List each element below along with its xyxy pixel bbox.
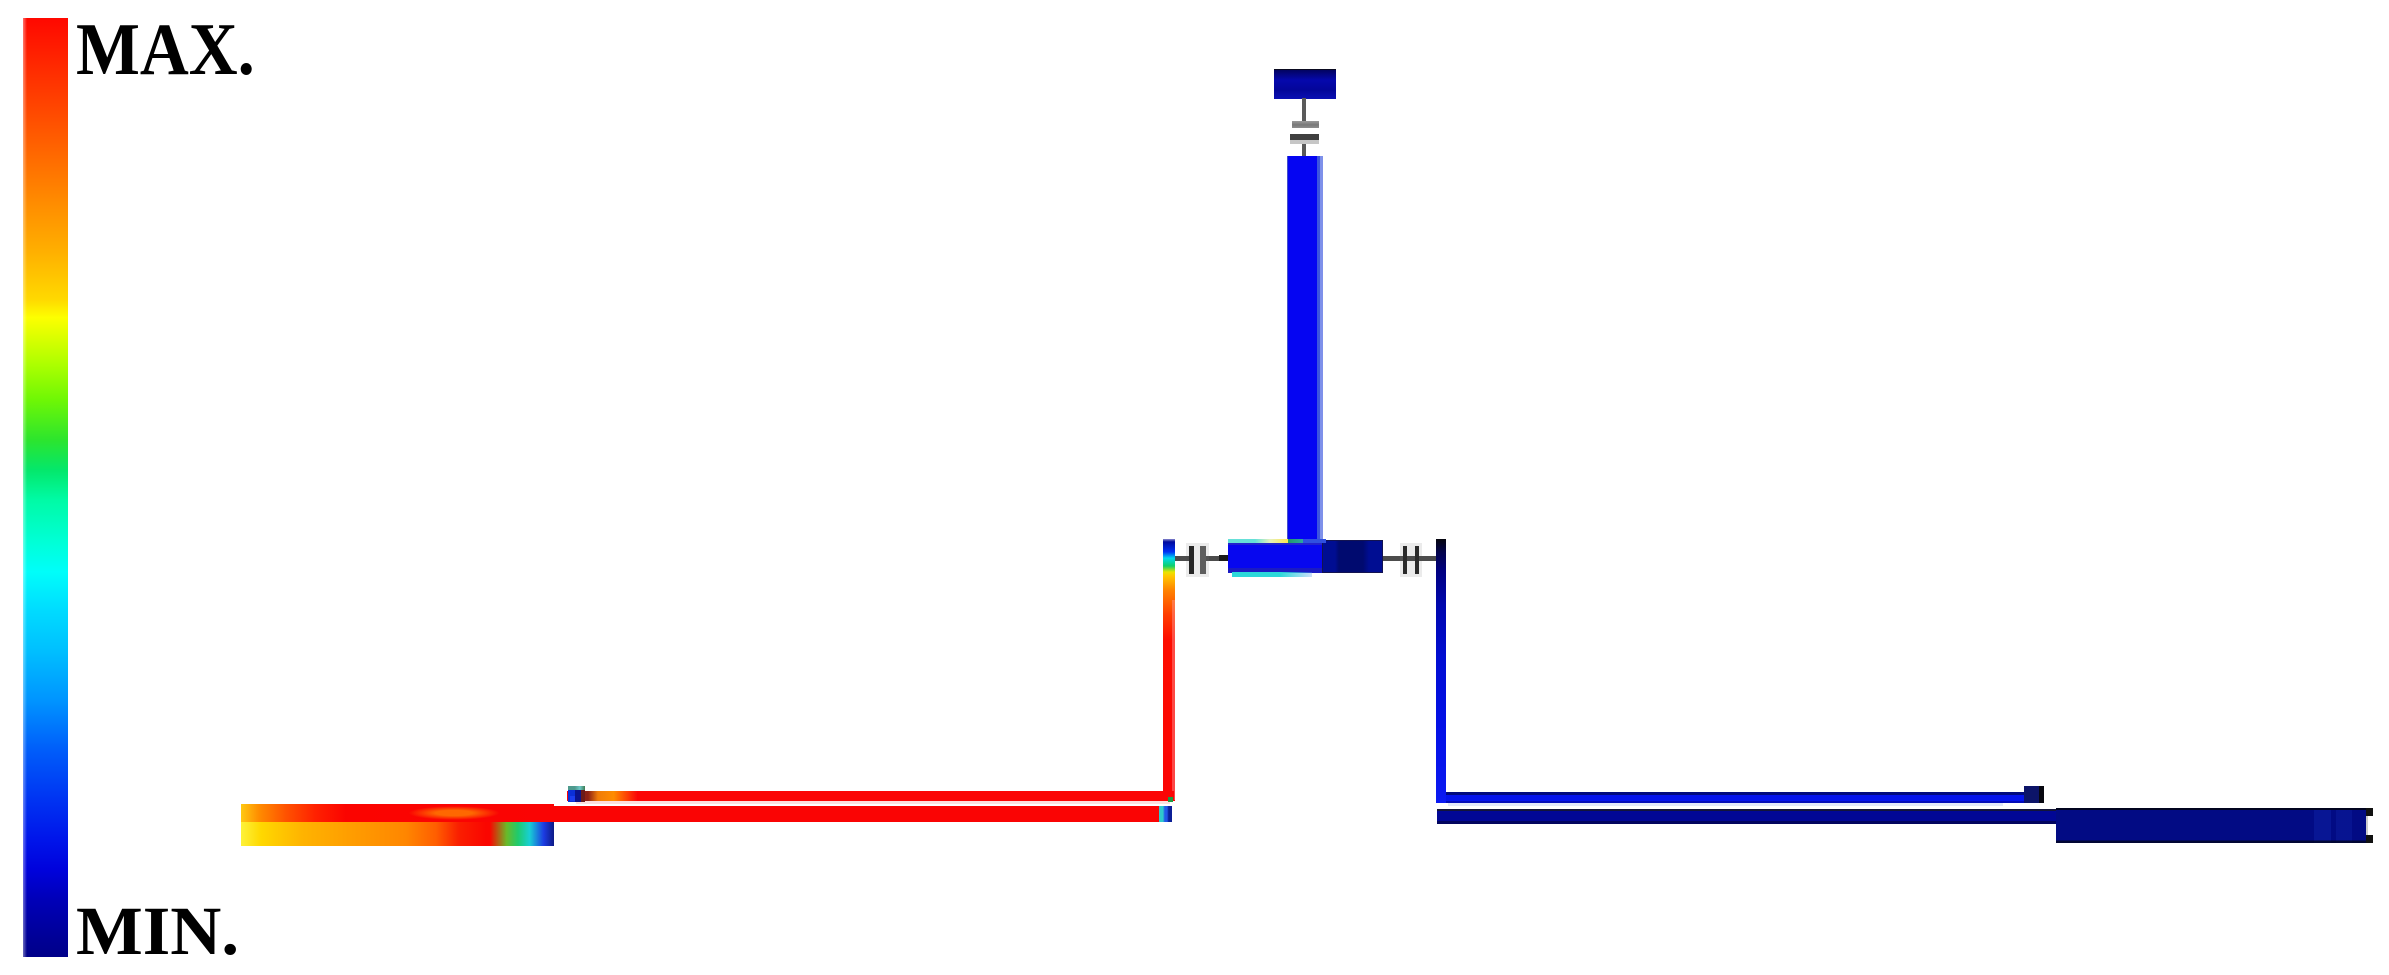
left valve tick 1 (1189, 546, 1194, 574)
heat source top strip warm patch (408, 806, 500, 820)
hot pipe upper line orange transition (585, 791, 637, 801)
heat sink right edge line (2366, 808, 2368, 843)
flange upper (1292, 121, 1319, 128)
cold pipe upper horizontal line (1446, 792, 2024, 803)
right valve tick 2 (1415, 546, 1419, 574)
green fleck (1168, 797, 1173, 802)
heat source cool inlet patch (490, 822, 554, 846)
cold pipe lower horizontal line (1437, 809, 2056, 824)
stem above flanges (1302, 98, 1306, 124)
left valve: line stub dark tip (1219, 555, 1228, 561)
label MIN. (76, 897, 239, 966)
hot pipe lower horizontal line (548, 806, 1172, 822)
cold pipe upper line pale under-edge (1448, 803, 2003, 806)
right valve tick 1 (1403, 546, 1407, 574)
heat sink right cap top (2366, 808, 2373, 816)
left valve tick halo (1186, 543, 1209, 577)
left valve: line between tick2 and bar (1206, 556, 1219, 561)
tank (top vessel) (1274, 69, 1336, 99)
right valve: mid line (1407, 556, 1415, 561)
hot pipe upper line inlet cap (blue) (568, 786, 585, 802)
colorbar legend (23, 18, 68, 957)
center bar bottom fringe (1232, 572, 1312, 577)
left valve: line from pipe to tick1 (1174, 556, 1189, 561)
right valve: line from bar to tick1 (1383, 556, 1403, 561)
flange lower (1290, 134, 1319, 140)
stem below flanges (1302, 144, 1306, 157)
heat source thick bar: bottom strip (241, 822, 554, 846)
cold downcomer pipe (right vertical) (1436, 539, 1446, 803)
center bar top fringe (1228, 539, 1288, 543)
hot pipe upper line pale under-edge (576, 801, 1170, 804)
center bar blue left part (1228, 543, 1322, 573)
center bar navy right part (1322, 540, 1383, 573)
label MAX. (76, 13, 255, 87)
right valve tick halo (1400, 543, 1422, 577)
cold pipe upper line end cap (2024, 786, 2044, 803)
left valve tick 2 (1200, 546, 1206, 574)
riser right light edge (1172, 600, 1175, 800)
heat source thick bar: top strip (241, 804, 554, 822)
hot pipe lower line end cap (blue) (1159, 806, 1172, 822)
left stub + hot riser pipe (1163, 539, 1175, 801)
hot pipe upper horizontal line (567, 791, 1174, 801)
right valve: line to pipe (1419, 556, 1437, 561)
riser column (blue) (1287, 156, 1323, 573)
heat sink right cap bottom (2366, 835, 2373, 843)
heat sink thick navy bar (2056, 808, 2366, 843)
